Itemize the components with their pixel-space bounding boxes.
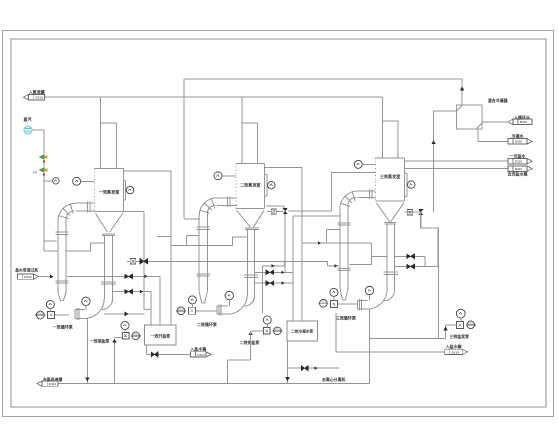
svg-text:去洗盐水箱: 去洗盐水箱	[508, 171, 528, 177]
svg-text:二效排盐泵: 二效排盐泵	[240, 340, 260, 345]
svg-text:二效蒸发室: 二效蒸发室	[240, 182, 260, 188]
svg-text:盐水母液过来: 盐水母液过来	[15, 268, 38, 273]
svg-text:一效升盐泵: 一效升盐泵	[151, 333, 171, 338]
svg-text:二效冷凝水泵: 二效冷凝水泵	[291, 328, 313, 333]
svg-text:三效循环泵: 三效循环泵	[336, 315, 357, 321]
svg-text:一效循环泵: 一效循环泵	[53, 324, 74, 330]
svg-text:去离心分离机: 去离心分离机	[322, 377, 345, 382]
svg-text:一效蒸发室: 一效蒸发室	[99, 189, 119, 195]
svg-text:D110: D110	[24, 275, 32, 279]
svg-text:D110: D110	[515, 140, 523, 144]
svg-text:D110: D110	[452, 350, 460, 354]
svg-text:冷凝水: 冷凝水	[512, 132, 525, 138]
svg-text:入循环水: 入循环水	[514, 114, 531, 120]
svg-text:入盐水箱: 入盐水箱	[190, 346, 206, 352]
svg-text:入蒸发罐: 入蒸发罐	[29, 88, 45, 94]
svg-text:入盐水箱: 入盐水箱	[446, 343, 462, 349]
svg-text:三效蒸发室: 三效蒸发室	[380, 173, 400, 179]
svg-text:一次盐水: 一次盐水	[510, 152, 527, 158]
svg-text:一效排盐泵: 一效排盐泵	[90, 339, 110, 344]
svg-text:D110: D110	[515, 167, 523, 171]
svg-text:三效盐浆泵: 三效盐浆泵	[450, 334, 470, 339]
svg-text:D110: D110	[35, 96, 43, 100]
svg-text:混合冷凝器: 混合冷凝器	[488, 97, 509, 103]
svg-text:二效循环泵: 二效循环泵	[197, 321, 218, 327]
svg-text:蒸汽: 蒸汽	[23, 116, 32, 122]
svg-text:D110: D110	[515, 160, 523, 164]
svg-text:D110: D110	[49, 382, 57, 386]
svg-text:D110: D110	[520, 120, 528, 124]
svg-text:D110: D110	[197, 353, 205, 357]
